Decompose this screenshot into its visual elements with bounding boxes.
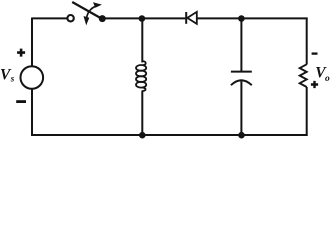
wire top rail from diode anode to top-right corner — [197, 17, 308, 19]
node: output junction above capacitor — [238, 15, 245, 22]
wire inductor branch upper — [141, 18, 143, 62]
switch left terminal (open circle) — [67, 15, 73, 21]
label + (source positive) — [17, 49, 25, 57]
switch arrowhead lower — [84, 16, 90, 25]
capacitor C top plate — [231, 71, 252, 73]
voltage source Vs circle — [21, 66, 44, 89]
wire left vertical lower (source bottom to bottom rail) — [31, 89, 33, 136]
wire top rail from switch pivot to diode cathode — [102, 17, 185, 19]
wire capacitor branch upper — [240, 18, 242, 71]
wire capacitor branch lower — [240, 82, 242, 136]
node: bottom junction below inductor — [139, 132, 146, 139]
wire left vertical upper (source top to top rail) — [31, 18, 33, 67]
switch motion arc arrow — [87, 6, 96, 17]
switch pivot node — [99, 15, 106, 22]
resistor R zigzag — [300, 64, 307, 87]
node: switch-node junction above inductor — [139, 15, 146, 22]
diode D cathode bar — [185, 12, 187, 24]
switch blade — [72, 2, 102, 19]
wire top-left horizontal from source to switch — [32, 17, 67, 19]
switch arrowhead upper — [93, 2, 102, 8]
diode D triangle (pointing left) — [187, 12, 197, 24]
capacitor C curved bottom plate — [231, 80, 252, 85]
wire bottom rail — [31, 134, 308, 136]
node: bottom junction below capacitor — [238, 132, 245, 139]
wire right vertical upper (top rail to resistor) — [306, 18, 308, 65]
inductor L coil — [136, 61, 146, 91]
wire right vertical lower (resistor to bottom rail) — [306, 87, 308, 136]
svg-text:o: o — [325, 74, 330, 84]
wire inductor branch lower — [141, 91, 143, 136]
label + (output positive) — [311, 81, 318, 88]
label - (output negative) — [312, 52, 318, 54]
svg-text:s: s — [10, 74, 15, 84]
label - (source negative) — [16, 100, 26, 103]
